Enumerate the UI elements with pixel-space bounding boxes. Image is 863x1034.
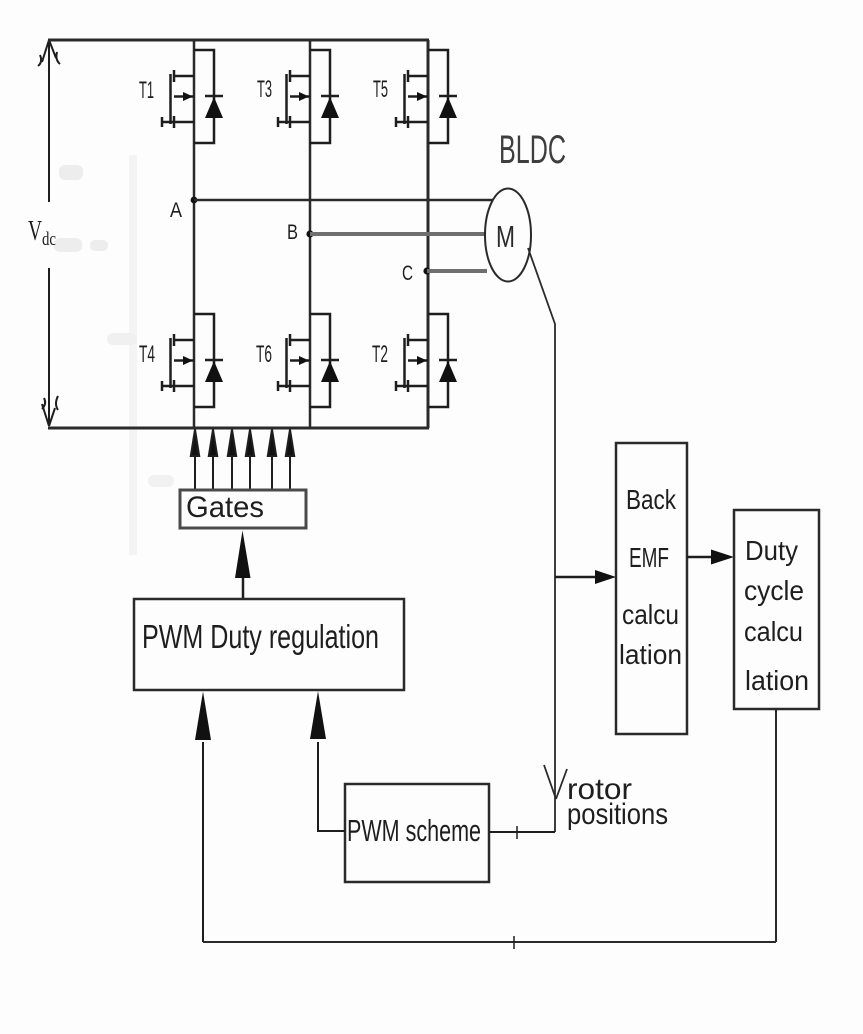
svg-text:T5: T5 [373, 76, 388, 103]
wire: bottom feedback bus [203, 941, 776, 943]
node B junction dot [306, 230, 313, 237]
Vdc arrowhead top [38, 40, 60, 66]
svg-text:positions: positions [567, 798, 668, 831]
svg-text:T1: T1 [139, 77, 154, 104]
svg-text:lation: lation [745, 665, 809, 696]
wire: phase A to motor [194, 199, 493, 202]
wire: phase B to motor [310, 232, 486, 236]
svg-text:T2: T2 [372, 341, 388, 368]
svg-text:PWM Duty regulation: PWM Duty regulation [142, 618, 379, 655]
PWM scheme block [345, 784, 489, 882]
wire: inverter leg 1 (T1/T4) [193, 40, 196, 428]
arrow: motor feedback into Back EMF calculation [555, 570, 616, 584]
arrow: PWM scheme into PWM Duty regulation (right) [310, 691, 326, 832]
svg-text:T3: T3 [257, 76, 272, 103]
svg-text:EMF: EMF [629, 542, 669, 573]
svg-text:lation: lation [619, 639, 682, 670]
gate drive arrow 4 [249, 453, 251, 490]
svg-text:Gates: Gates [186, 491, 264, 524]
wire: phase C to motor [427, 269, 487, 273]
open arrowhead on rotor position wire [544, 765, 567, 799]
svg-text:calcu: calcu [622, 599, 679, 630]
Duty cycle calculation block [734, 510, 819, 709]
gate drive arrow 3 [231, 453, 233, 490]
svg-text:A: A [170, 199, 182, 222]
wire: top DC bus rail [48, 39, 429, 42]
wire: inverter leg 3 (T5/T2) [427, 40, 430, 428]
Vdc measurement arrow line (upper segment) [48, 42, 50, 202]
transistor T1 (MOSFET with body diode) [162, 50, 223, 143]
node A junction dot [191, 197, 198, 204]
transistor T3 (MOSFET with body diode) [278, 50, 339, 143]
svg-text:BLDC: BLDC [499, 128, 566, 172]
tick mark on rotor positions wire [516, 826, 518, 839]
arrow: Back EMF calculation to Duty cycle calculation [687, 550, 734, 565]
svg-text:PWM scheme: PWM scheme [347, 813, 481, 848]
svg-text:M: M [496, 219, 515, 254]
Vdc measurement arrow line (lower segment) [48, 268, 50, 425]
gate drive arrow 5 [271, 453, 273, 490]
wire: rotor position feedback from motor [528, 248, 555, 832]
transistor T4 (MOSFET with body diode) [162, 314, 223, 407]
transistor T5 (MOSFET with body diode) [396, 50, 457, 143]
PWM Duty regulation block [134, 599, 404, 690]
Vdc label [28, 215, 56, 250]
tick mark on bottom feedback wire [513, 936, 515, 949]
svg-text:cycle: cycle [744, 575, 804, 606]
wire: rotor positions to PWM scheme [489, 831, 555, 833]
wire: bottom DC bus rail [48, 427, 429, 430]
wire: PWM scheme left output [318, 830, 345, 832]
svg-text:B: B [287, 221, 298, 244]
wire: inverter leg 2 (T3/T6) [309, 40, 312, 428]
svg-text:Back: Back [626, 484, 677, 515]
arrow: PWM Duty regulation to Gates [235, 531, 251, 600]
svg-text:T6: T6 [256, 341, 272, 368]
gate drive arrow 1 [194, 453, 196, 490]
Back EMF calculation block [616, 443, 687, 734]
svg-text:C: C [402, 262, 413, 285]
transistor T2 (MOSFET with body diode) [396, 314, 457, 407]
Vdc arrowhead bottom [42, 396, 58, 426]
motor M (BLDC machine) [485, 189, 531, 282]
arrow: duty-cycle feedback into PWM Duty regulation (left) [195, 692, 211, 943]
node C junction dot [423, 267, 430, 274]
gate drive arrow 2 [212, 453, 214, 490]
svg-text:dc: dc [42, 229, 56, 250]
gate drive arrow 6 [289, 453, 291, 490]
transistor T6 (MOSFET with body diode) [278, 314, 339, 407]
svg-text:calcu: calcu [744, 616, 803, 647]
svg-text:T4: T4 [139, 341, 155, 368]
Gates block [180, 490, 306, 528]
wire: Duty cycle calculation output down [775, 709, 777, 942]
svg-text:V: V [28, 215, 42, 247]
svg-text:Duty: Duty [745, 535, 798, 566]
